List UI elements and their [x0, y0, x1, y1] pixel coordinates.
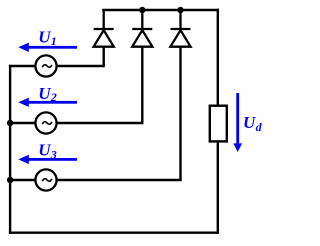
- svg-text:U3: U3: [38, 141, 57, 162]
- AC source G3: [35, 169, 56, 190]
- AC source G1: [35, 55, 56, 76]
- voltage arrow U3: [18, 155, 77, 164]
- junction dot: neutral / G3: [7, 177, 13, 183]
- junction dot: neutral / G2: [7, 120, 13, 126]
- wire: G3 to diode D3 anode: [56, 47, 180, 180]
- resistor Rd (load): [210, 106, 227, 142]
- voltage arrow U2: [18, 98, 77, 107]
- svg-text:U1: U1: [38, 28, 57, 49]
- wire: right vertical, bus to load top: [217, 10, 219, 105]
- svg-text:Ud: Ud: [243, 113, 263, 134]
- wire: neutral to source G2: [10, 122, 36, 124]
- junction dot: bus / D3: [177, 7, 183, 13]
- wire: left neutral bus: [9, 66, 11, 233]
- wire: neutral to source G3: [10, 179, 36, 181]
- wire: G2 to diode D2 anode: [56, 47, 142, 123]
- voltage arrow U1: [18, 43, 77, 52]
- AC source G2: [35, 112, 56, 133]
- wire: load bottom to bottom bus: [217, 142, 219, 232]
- diode D1: [94, 10, 114, 47]
- diode D3: [170, 10, 190, 47]
- wire: top cathode bus: [103, 9, 217, 11]
- svg-text:U2: U2: [38, 84, 57, 104]
- diode D2: [132, 10, 152, 47]
- voltage arrow Ud: [233, 93, 242, 152]
- wire: G1 to diode D1 anode: [56, 47, 103, 66]
- wire: neutral to source G1: [10, 65, 36, 67]
- wire: bottom return bus: [10, 231, 218, 233]
- junction dot: bus / D2: [139, 7, 145, 13]
